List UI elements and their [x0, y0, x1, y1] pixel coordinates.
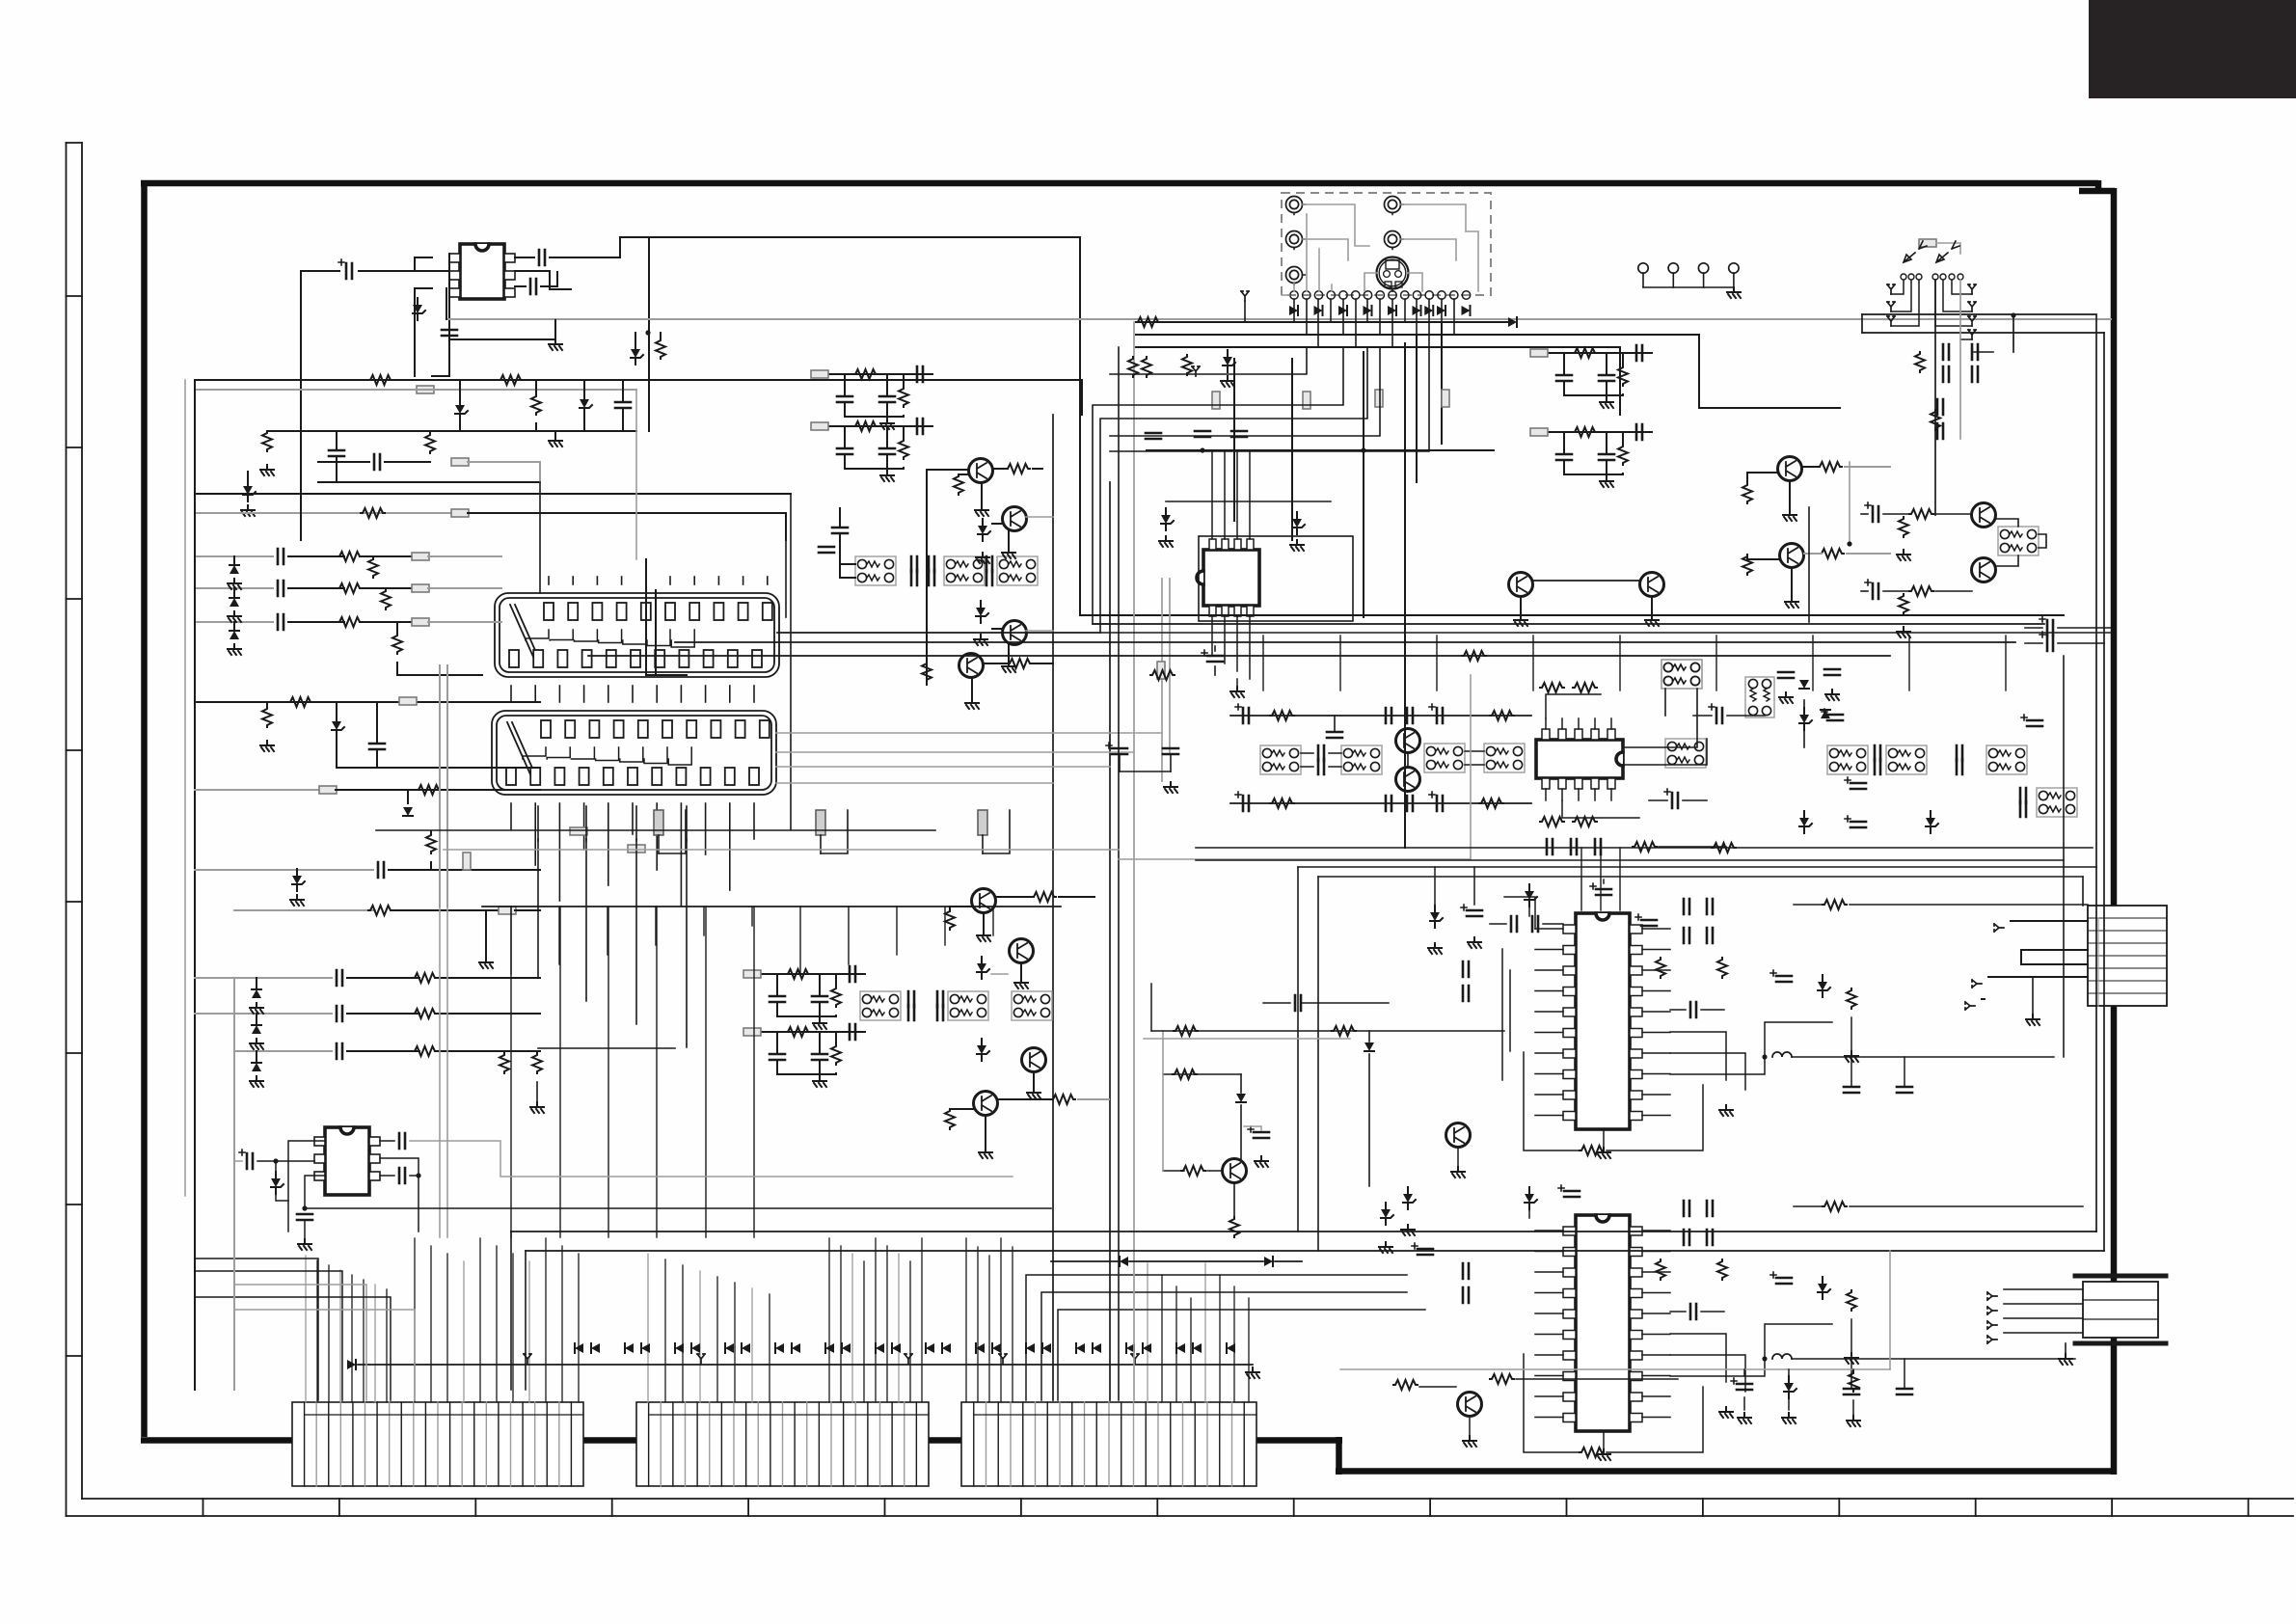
cap pair mid [1386, 708, 1391, 723]
ground G1 [549, 339, 562, 350]
bus row C [318, 481, 540, 483]
transistor Q10 [1780, 544, 1804, 568]
antenna A2 [1192, 366, 1200, 376]
ground G6 [290, 895, 304, 906]
inductor L1 [1772, 1052, 1792, 1057]
e-cap E2 [1865, 502, 1878, 522]
rnet RN11 [1341, 745, 1382, 774]
right mid vertical x2140 [2063, 656, 2065, 1057]
cap C23 [1844, 1087, 1859, 1093]
bus y=334 [1136, 321, 1507, 323]
long CN2 drops [510, 907, 512, 1237]
ground G10b [1002, 662, 1015, 672]
diode stack D13 [252, 1063, 261, 1071]
res R57b [1332, 1026, 1356, 1036]
long verticals below CN1 [439, 665, 441, 1237]
e-cap E19 [1770, 1272, 1792, 1284]
rail y=1114 [1163, 1073, 1241, 1075]
corner fill block [2089, 0, 2296, 98]
resistor R2 [499, 375, 523, 385]
right staircase into block3 [1026, 1275, 1407, 1400]
ground G17 [1514, 615, 1527, 626]
IC U1 body [460, 244, 504, 299]
sheet bottom ruler [67, 1515, 2294, 1517]
resistor R45 [1847, 988, 1856, 1009]
resistor R3 [531, 394, 541, 415]
zener D32 [1223, 350, 1235, 372]
e-cap E5 [1106, 743, 1127, 754]
resistor R32 [1909, 509, 1933, 519]
res R59 [532, 1053, 542, 1073]
resistor R5 [425, 433, 435, 453]
header chain J7 (4 pins top right) [1638, 263, 1648, 273]
resistor R29 [1818, 462, 1842, 472]
capacitor C13 [337, 970, 342, 986]
capacitor C15 [337, 1043, 342, 1059]
left gray vertical [233, 978, 235, 1390]
zener D33 [1161, 508, 1174, 530]
row y=796 [337, 767, 540, 769]
long verticals right [2103, 333, 2105, 1251]
res pair below U4 [1540, 817, 1564, 826]
e-cap E9 [1235, 792, 1249, 811]
transistor Q6 [1010, 939, 1034, 963]
bus y=360 [1136, 347, 1620, 415]
diode D29 [1236, 1094, 1246, 1102]
diode D21 [1821, 710, 1830, 718]
ground G10 [974, 635, 987, 645]
e-cap E18 [1558, 1185, 1580, 1197]
row y=819 [195, 789, 320, 791]
zener D23 [1799, 811, 1812, 833]
jack wiring inside AV panel [1303, 204, 1369, 246]
resistor R23 [1006, 464, 1030, 474]
connector CN90 pin block [292, 1402, 583, 1486]
left vertical bus [194, 380, 196, 1390]
trimmer VR2 [816, 810, 825, 835]
ground G7 [479, 958, 493, 968]
ground G8 [975, 505, 988, 516]
wire fan to connector blocks [305, 1256, 307, 1402]
RCA jack J5 [1286, 267, 1306, 285]
dashed enclosure AV panel [1282, 193, 1491, 295]
cap C20 [1327, 732, 1342, 738]
zener D28 [1818, 1277, 1830, 1299]
CN2 internal wiring [523, 747, 546, 759]
U5 left nest [1504, 897, 1535, 929]
bus y=347 [1136, 335, 1840, 408]
zener D34 [1292, 512, 1305, 534]
resistor R42 [1633, 842, 1657, 852]
resistor R50 [1847, 1290, 1856, 1311]
wires right of U4 [1623, 689, 1697, 747]
RCA jack J1 [1286, 197, 1306, 215]
diode D29b [1364, 1042, 1374, 1051]
res R58 [500, 1053, 509, 1073]
bead F4 [412, 553, 429, 560]
row y=1090 [234, 1050, 332, 1052]
cap C21 [1386, 796, 1391, 811]
S-video connector J6 [1377, 257, 1409, 289]
resistor R8 [338, 583, 362, 593]
connector CN91 pin block [636, 1402, 929, 1486]
caps grid right [1943, 344, 1949, 360]
ground G3 [260, 465, 274, 475]
ground G4 [241, 505, 255, 516]
resistor R24 [922, 662, 932, 682]
rail y=467 [1147, 449, 1494, 451]
res R57 [1174, 1026, 1198, 1036]
bead F5 [412, 584, 429, 592]
capacitor C6 [329, 450, 344, 456]
diode pair row [1120, 1257, 1128, 1266]
wires top right block [1862, 314, 2096, 1232]
e-cap E22 [1731, 1378, 1752, 1390]
caps around U6 [1684, 1201, 1689, 1216]
resistor R30b [1742, 555, 1752, 575]
resistor R9 [338, 617, 362, 627]
row y=728 [195, 701, 540, 703]
resistor R37 [1150, 670, 1175, 680]
antenna column right [1968, 284, 1976, 294]
resistor R14 [262, 707, 272, 727]
e-cap E12 [1822, 709, 1843, 720]
res R51 [1823, 1202, 1847, 1211]
bend into fan left [510, 1232, 512, 1390]
trimmer VR1 [654, 810, 663, 835]
rnet chain upper [855, 556, 896, 585]
resistor R49 [1717, 1259, 1727, 1280]
RC filter block FB3 [1531, 352, 1652, 354]
row y=742 [1230, 715, 1531, 717]
bead F13 [1157, 662, 1165, 679]
IC U2 body [325, 1127, 369, 1195]
ground G23 [1719, 1407, 1733, 1418]
CN1 right-side rails [777, 632, 1100, 634]
RCA jack J2 [1385, 197, 1404, 215]
connector CN1 (24-pin) [495, 593, 779, 677]
ground G20 [1897, 627, 1910, 637]
ground G11 [977, 931, 990, 941]
cap trio below U4 [1547, 839, 1553, 854]
zener D24 [1926, 811, 1938, 833]
e-cap E15 [1590, 883, 1611, 895]
resistor R12 [392, 634, 402, 654]
IC U3 surrounding box [1199, 536, 1353, 621]
capacitor C4 [442, 330, 457, 336]
transistor Q11 [1509, 573, 1533, 597]
row y=881 long [444, 849, 1119, 851]
rnet RN6 [1886, 745, 1927, 774]
resistor R11 [381, 589, 391, 609]
resistor R25 [945, 909, 955, 930]
diode stack D5 [230, 565, 239, 574]
resistor R38 [1270, 711, 1294, 720]
row y=1051 [195, 1013, 332, 1015]
connector CN2 (24-pin) [492, 711, 776, 795]
bus y=372 drop [1233, 359, 1235, 521]
inductor L2 [1772, 1354, 1792, 1359]
photo-coupler block top right [1919, 239, 1936, 247]
left fan L-bends [195, 1259, 318, 1400]
big loop rails [1298, 866, 2096, 868]
resistor R30 [1742, 483, 1752, 503]
wires center drop to bottom [1118, 347, 1120, 1400]
res R56 [1173, 1069, 1197, 1079]
ground G26 [1463, 1436, 1476, 1447]
resistor R6 [361, 508, 385, 518]
zener D8 [332, 715, 344, 737]
caps row 452 [1146, 433, 1161, 439]
ground G27 [530, 1102, 544, 1113]
gray verticals under CN1 diag [439, 665, 441, 907]
rnet RN3 [1745, 677, 1774, 717]
sheet left ruler [66, 143, 68, 1516]
zener D29c [1403, 1187, 1416, 1209]
transistor Q16 [1396, 768, 1420, 792]
res R54 [1181, 1166, 1205, 1176]
capacitor C10 [278, 614, 284, 630]
RCA jack J3 [1286, 231, 1306, 250]
RC filter block FB4 [1531, 431, 1652, 433]
gray line y=891 [1119, 858, 1471, 860]
IC U3 (middle, horizontal 8-pin) [1203, 550, 1259, 606]
upper-left of U5 caps [1461, 905, 1482, 916]
zener D25 [1525, 884, 1537, 907]
res R47 [1712, 843, 1736, 853]
resistor R7 [338, 552, 362, 561]
zener D20 [1799, 708, 1812, 730]
RCA jack J4 [1385, 231, 1404, 250]
U2 long rail [305, 1207, 1051, 1209]
electrolytic C1 [338, 259, 352, 279]
zener D26 [1818, 975, 1830, 997]
AV fan L-bends to center bus [1093, 347, 1343, 624]
transistor Q5 [972, 889, 996, 913]
resistor trio [1128, 357, 1138, 377]
bus rail above blocks [347, 1360, 356, 1369]
drop x1918 [1849, 462, 1850, 544]
ground G9b [1002, 548, 1015, 558]
gray drop 1206 [1162, 1031, 1164, 1171]
rnet RN8 [2037, 788, 2077, 817]
resistor R35 [1899, 594, 1908, 614]
bus row D [195, 493, 791, 495]
resistor R24b [1008, 659, 1032, 668]
zener D4 [243, 479, 256, 501]
wires right of U5 [1670, 1032, 1726, 1080]
cap C22 [1690, 1002, 1696, 1017]
antenna column left [1887, 284, 1895, 294]
row y=861 [376, 829, 935, 831]
caps between RN10-11 [1318, 745, 1324, 761]
res pair above U4 [1540, 683, 1564, 692]
resistor R19 [413, 1009, 437, 1018]
ground G15 [1783, 510, 1796, 521]
rnet RN1 [1998, 527, 2039, 555]
U5 feed verticals [1580, 848, 1582, 910]
gray drop x=1960 [1889, 1251, 1891, 1369]
ground G14 [979, 1148, 992, 1158]
diode row under header [1289, 306, 1298, 315]
res R53 [1393, 1380, 1418, 1390]
e-cap E4 [1202, 650, 1223, 662]
verticals bus-to-row742 [1262, 636, 1264, 690]
U2 wiring [399, 1133, 405, 1149]
antenna A1 [1241, 291, 1249, 301]
long bus y=1297 [526, 1250, 2104, 1252]
left port rows [195, 555, 273, 557]
resistor R43 [1656, 958, 1665, 978]
cap C25 [1844, 1389, 1859, 1394]
left of U6 parts [1412, 1243, 1433, 1255]
rnet RN5 [1827, 745, 1868, 774]
e-cap E14 [1845, 777, 1866, 789]
resistor R40 [1270, 798, 1294, 808]
transistor Q8 [974, 1092, 998, 1116]
misc verticals middle [790, 494, 792, 829]
trimmer VR3 [978, 810, 987, 835]
zener D18 [977, 957, 989, 979]
e-cap E20 [1248, 1126, 1269, 1138]
band rails y=879/892 [1196, 847, 2093, 849]
bead F3 [451, 509, 469, 517]
ground G25 [1451, 1167, 1465, 1177]
wires from CN2 to right [776, 751, 1134, 753]
nested corners above fan [537, 839, 539, 978]
bead F8 [319, 786, 337, 794]
ground G19 [1897, 550, 1910, 560]
wires around U1 [301, 270, 339, 272]
resistor R22 [954, 474, 963, 495]
bead F6 [412, 618, 429, 626]
resistor R16 [426, 833, 436, 853]
rnet RN4 [1665, 739, 1706, 768]
ground G2 [549, 436, 562, 447]
IC U4 (middle right, 14-pin) [1536, 740, 1623, 778]
rnet RN7 [1986, 745, 2027, 774]
rnet RN10 [1260, 745, 1301, 774]
caps feed left [832, 528, 848, 533]
zener D3 [580, 392, 592, 415]
transistor Q3 [1003, 621, 1027, 645]
row under CN2 [482, 906, 1061, 907]
e-cap E3 [1865, 580, 1878, 599]
CN2 bottom fanout [510, 803, 512, 829]
zener D30 [271, 1172, 284, 1194]
resistor R27 [945, 1109, 955, 1129]
drop x1876 [1808, 507, 1810, 622]
transistor Q1 [969, 459, 993, 483]
capacitor C5 [615, 402, 631, 408]
U3 top wires [1211, 450, 1213, 539]
CN1 internal wiring [526, 630, 549, 640]
rnet RN9 [1661, 660, 1702, 689]
diode stack D7 [230, 631, 239, 639]
ground G10c [965, 698, 979, 709]
resistor R4 [262, 431, 272, 451]
capacitor C2 [539, 250, 545, 265]
transistor Q12 [1640, 573, 1664, 597]
row y=944 [234, 909, 375, 911]
bus row E [195, 512, 452, 514]
transistor Q18 [1458, 1393, 1482, 1417]
ground G22 [1845, 1051, 1858, 1062]
transistor Q19 [1223, 1159, 1247, 1183]
diode stack D11 [252, 989, 261, 998]
row y=902 [195, 869, 373, 871]
e-cap E6 [1235, 704, 1249, 723]
vertical pair at x=670 [645, 559, 647, 675]
e-cap E7 [1429, 704, 1443, 723]
diode stack D12 [252, 1025, 261, 1034]
rnet chain lower [860, 991, 901, 1020]
resistor R60 [1849, 1371, 1858, 1392]
resistor R3b [656, 338, 665, 359]
long gray rail from U1 area [446, 318, 2111, 320]
resistor R13 [288, 697, 312, 707]
rnet RN12 [1424, 744, 1465, 772]
resistor R15 [417, 785, 441, 795]
capacitor C7 [374, 454, 380, 470]
e-cap E17 [1635, 914, 1657, 926]
pin circles row [1901, 274, 1906, 280]
IC U6 body [1576, 1215, 1630, 1431]
bus row A [195, 379, 1082, 381]
zener D17 [976, 601, 988, 623]
rail y=520 [1166, 501, 1331, 502]
beads on verticals [1212, 392, 1220, 409]
RC filter block FB6 [744, 1031, 865, 1033]
U4 pin wires [1545, 718, 1547, 729]
CN1 top pin stubs [548, 577, 550, 584]
bus row A2 [195, 389, 636, 391]
transistor Q15 [1396, 729, 1420, 753]
zener D2b [631, 342, 643, 365]
band lines above DIP1 [1151, 1030, 1504, 1032]
resistor R41 [1479, 798, 1503, 808]
bus lines right middle [1093, 623, 2044, 625]
resistor R48 [1656, 1259, 1665, 1280]
zener D19 [977, 1039, 989, 1061]
zener D15 [978, 519, 990, 541]
resistor R31 [1820, 549, 1844, 558]
ground G24 [1845, 1353, 1858, 1364]
bead F9 [463, 853, 471, 870]
bead F10 [499, 907, 516, 914]
transistor Q13 [1972, 503, 1996, 528]
capacitor C14 [337, 1006, 342, 1021]
pin header row under AV panel [1290, 291, 1298, 299]
connector CN92 pin block [961, 1402, 1256, 1486]
resistor R17 [368, 906, 392, 915]
zener D10 [292, 869, 305, 891]
links CN1-CN2 [510, 686, 512, 702]
resistor R10 [368, 557, 378, 578]
capacitor C9 [278, 581, 284, 596]
res R52 [1490, 1374, 1514, 1384]
mid horizontal y=1087 [538, 1047, 675, 1049]
resistor R33 [1899, 517, 1908, 537]
left frame inner verticals [184, 380, 186, 1196]
nested verticals extended [537, 806, 539, 841]
wire drop x=673 [648, 237, 650, 431]
wires into CN81 [2004, 1288, 2083, 1290]
diode D9 [403, 807, 413, 816]
zener D31 [1784, 1376, 1796, 1398]
U3 bottom wires [1211, 616, 1213, 656]
rnet RN13 [1484, 744, 1525, 772]
